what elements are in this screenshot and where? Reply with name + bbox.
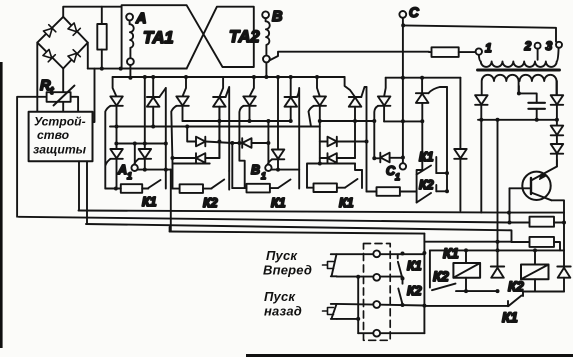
- node dots dc bus: [479, 118, 559, 122]
- svg-text:К2: К2: [203, 196, 218, 210]
- contact K2 (left) blade: [432, 284, 456, 291]
- wire feeder to gate buses: [480, 120, 482, 213]
- node dots C-branch: [401, 76, 424, 80]
- thyristor VS13 (2nd row near B1): [267, 77, 284, 170]
- wire dc bus: [478, 119, 557, 121]
- svg-text:В: В: [251, 163, 260, 177]
- wire relay2 bottom link: [523, 291, 564, 293]
- svg-text:А: А: [117, 163, 127, 177]
- wire emitter right and down: [552, 200, 565, 250]
- diode VD20 (left secondary): [475, 95, 488, 120]
- thermistor Rt: [17, 86, 78, 217]
- wire relay rail: [430, 249, 564, 251]
- wire base feed: [509, 188, 511, 222]
- wire button2 bottom to v358: [337, 318, 358, 320]
- bus B2: [19, 217, 510, 223]
- wire C down: [402, 18, 404, 78]
- wire cap bottom: [536, 109, 538, 120]
- scan border left edge: [0, 62, 3, 348]
- wire collector up: [556, 160, 558, 167]
- wire anode bus: [113, 76, 345, 78]
- resistor R-top (right): [508, 217, 567, 227]
- svg-text:К1: К1: [339, 196, 354, 210]
- diode bridge VD1-VD4: [37, 17, 88, 69]
- scan border bottom edge: [246, 354, 573, 357]
- svg-text:ТА2: ТА2: [229, 28, 260, 46]
- svg-text:К2: К2: [419, 178, 434, 192]
- wire B lower to fuse line: [269, 52, 429, 61]
- wire rail left drop: [429, 250, 431, 287]
- svg-text:1: 1: [127, 171, 132, 181]
- wire group1 right down to bus4: [170, 170, 172, 232]
- wire group4 top: [307, 164, 355, 188]
- svg-text:К2: К2: [433, 269, 449, 284]
- diode VD25 (flyback K2): [557, 250, 570, 291]
- svg-text:В: В: [272, 9, 282, 25]
- wire box bottom leads down to buses: [79, 161, 87, 224]
- svg-text:К1: К1: [271, 196, 286, 210]
- wire bus4 left tick: [169, 227, 171, 232]
- svg-text:назад: назад: [264, 304, 302, 319]
- resistor R (vertical, top left): [97, 7, 106, 69]
- wire A1 stem: [134, 144, 136, 165]
- wire tap to cap: [519, 93, 537, 102]
- wire A coil to gate bus: [129, 65, 131, 78]
- protection device box U1: [29, 112, 93, 162]
- winding B (TA2 secondary): [266, 18, 270, 55]
- group 3: wire top: [272, 169, 300, 171]
- wire B1 drop: [267, 121, 269, 164]
- pushbutton SB1 (Пуск Вперед): [323, 254, 337, 276]
- resistor R-K1c: [307, 183, 345, 192]
- resistor R-K5: [367, 187, 417, 196]
- wire long vertical to relay: [497, 120, 499, 266]
- svg-text:Вперед: Вперед: [263, 263, 312, 278]
- svg-text:ТА1: ТА1: [143, 29, 174, 47]
- wire right C-branch down: [459, 78, 461, 149]
- svg-text:Пуск: Пуск: [266, 248, 298, 263]
- node dots on bus: [100, 67, 123, 71]
- wire top bus: [63, 7, 121, 17]
- svg-text:2: 2: [524, 39, 532, 53]
- wire gate VS2 down to K1 contact: [165, 88, 167, 189]
- winding A (TA1 secondary): [130, 20, 134, 58]
- wire relay1 bottom link: [456, 290, 498, 292]
- thyristor VS8 (reversed): [345, 77, 367, 158]
- node dots mesh: [115, 119, 377, 129]
- terminal 1: [476, 48, 482, 54]
- wire center tap down: [518, 86, 520, 93]
- wire C vertical lower (to C1): [402, 78, 404, 163]
- terminal 3: [556, 42, 562, 48]
- wire C-branch bus: [386, 77, 461, 79]
- block terminal circles: [373, 250, 380, 336]
- svg-text:1: 1: [261, 171, 266, 181]
- wire group2 top: [173, 164, 210, 189]
- wire row3: [337, 304, 425, 306]
- svg-text:К1: К1: [502, 310, 518, 325]
- wire v358: [357, 277, 359, 333]
- thyristor VS5: [239, 77, 255, 188]
- wire gate cross row: [116, 143, 165, 145]
- wire row2: [337, 276, 403, 278]
- relay coil K1: [453, 250, 480, 291]
- wire gate line yM3: [110, 126, 320, 128]
- diode VD13 (horizontal left-pointing, near C1): [372, 153, 405, 163]
- node dots row1: [401, 251, 427, 256]
- terminal C: [399, 11, 406, 18]
- contact K1/K2 pair (right of C1): [417, 157, 449, 203]
- svg-text:С: С: [409, 5, 419, 20]
- transistor VT1: [510, 167, 557, 201]
- terminal B lower: [263, 56, 270, 63]
- node: [356, 317, 360, 321]
- thyristor VS3: [171, 77, 189, 164]
- wire row4: [358, 332, 424, 334]
- terminal A lower: [127, 58, 134, 65]
- label устройство защиты: [33, 115, 87, 157]
- svg-text:ство: ство: [37, 128, 70, 142]
- node: [517, 91, 521, 95]
- terminal A1: [131, 165, 137, 171]
- thyristor VS10 (reversed): [416, 78, 447, 122]
- svg-text:3: 3: [546, 39, 553, 53]
- resistor R-bot (right): [424, 237, 560, 251]
- relay coil K2: [521, 250, 549, 291]
- contact K2 blade: [212, 171, 230, 190]
- bus B1 (gate common): [79, 211, 565, 213]
- label Пуск Вперед: [263, 248, 312, 319]
- svg-text:К2: К2: [407, 284, 422, 298]
- terminal C1: [400, 163, 406, 169]
- node: [401, 23, 405, 27]
- diode pair B (horizontal): [320, 137, 367, 163]
- diode pair A (horizontal): [171, 107, 233, 163]
- wire bridge right vertex to bus: [87, 43, 89, 69]
- contact K1c blade: [345, 170, 362, 188]
- svg-text:1: 1: [395, 172, 400, 182]
- wire bridge bottom vertex down to protection box: [62, 69, 64, 112]
- bus B4 (button feed): [170, 232, 425, 234]
- node dots row2: [356, 275, 404, 281]
- svg-text:К1: К1: [407, 259, 422, 273]
- svg-text:Пуск: Пуск: [264, 289, 296, 304]
- thyristor VS4 (reversed): [213, 77, 229, 171]
- node: [420, 119, 424, 123]
- secondary winding right half: [520, 75, 557, 95]
- bus B3: [86, 224, 512, 242]
- terminal 2: [535, 43, 541, 49]
- node: [401, 119, 405, 123]
- pushbutton SB2 (Пуск назад): [323, 304, 337, 319]
- thyristor VS7: [309, 77, 327, 164]
- wire group4 right: [355, 164, 362, 171]
- wire B lower to bus: [265, 62, 267, 77]
- diode VD24 (flyback K1): [491, 267, 504, 278]
- svg-text:К1: К1: [142, 195, 157, 209]
- wire row3 extension to contact: [424, 305, 508, 307]
- transformer TA1/TA2 bowtie outline: [122, 5, 254, 68]
- contact K2 (buttons): [398, 281, 402, 306]
- diode VD21 (right secondary): [551, 81, 564, 120]
- diode VD22: [551, 120, 564, 144]
- diode VD23: [551, 144, 564, 166]
- wire y121 link: [384, 120, 422, 122]
- diode VD12 (horizontal left-pointing): [230, 138, 270, 188]
- secondary winding left half: [482, 75, 519, 95]
- wire row1: [337, 253, 425, 255]
- wire v424 (block right): [423, 234, 425, 334]
- capacitor C: [528, 103, 545, 109]
- thyristor VS12 (2nd row): [134, 77, 151, 172]
- thyristor VS1: [105, 77, 123, 189]
- wire VS8 gate feed down: [366, 87, 368, 192]
- svg-text:К1: К1: [443, 246, 459, 261]
- terminal B: [262, 11, 269, 18]
- dashed terminal block X1: [364, 244, 391, 341]
- thyristor VS9: [374, 78, 390, 159]
- node dots rail: [464, 248, 537, 252]
- node dots row3: [401, 303, 427, 308]
- terminal A: [126, 14, 133, 21]
- node base/bus1: [507, 211, 511, 215]
- pulse transformer T primary winding: [479, 48, 559, 67]
- svg-text:А: А: [135, 11, 146, 27]
- resistor R-K2: [173, 184, 212, 193]
- thyristor VS11 (2nd row): [106, 149, 123, 188]
- svg-text:1: 1: [485, 41, 492, 55]
- node dots on anode bus: [128, 75, 319, 80]
- svg-text:защиты: защиты: [33, 143, 87, 157]
- transformer core: [478, 69, 560, 72]
- svg-text:К2: К2: [508, 279, 524, 294]
- thyristor VS2 (reversed): [147, 77, 166, 127]
- contact K1 (buttons): [398, 255, 403, 278]
- fuse FU: [429, 47, 476, 57]
- terminal B1: [265, 165, 271, 171]
- svg-text:К1: К1: [419, 150, 434, 164]
- wire bus under TA1: [88, 68, 187, 70]
- wire 423 down to K contact area: [417, 121, 423, 202]
- wire from bus down into box right: [93, 69, 95, 122]
- contact K1 blade: [148, 180, 160, 188]
- node dots: [464, 289, 500, 293]
- contact K2/K1 (bottom): [508, 292, 523, 307]
- group 1: wire top + switch right terminal: [138, 169, 171, 171]
- resistor R-K1: [105, 184, 148, 193]
- wire gate line yM2 segments: [183, 120, 375, 122]
- resistor R-K1b: [232, 184, 278, 193]
- wire C to terminal 3: [403, 25, 556, 41]
- diode VD (on right C-branch): [454, 149, 467, 211]
- wire bridge left vertex down: [36, 43, 38, 112]
- thyristor VS6 (reversed): [285, 77, 300, 189]
- contact K1b blade: [278, 180, 291, 189]
- wire VS10 gate feed down: [446, 87, 448, 191]
- svg-text:Устрой-: Устрой-: [34, 115, 86, 129]
